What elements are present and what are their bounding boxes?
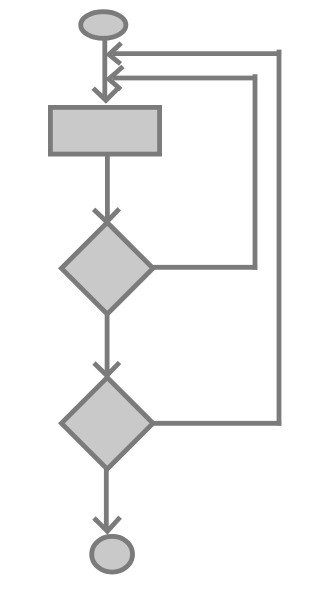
arrowhead into process [93, 88, 118, 101]
wire inner loop left [113, 76, 257, 81]
arrowhead inner loop into main wire [109, 67, 123, 90]
arrowhead into end [94, 517, 120, 531]
start terminator ellipse [81, 12, 126, 39]
arrowhead outer loop into main wire [109, 43, 121, 64]
decision 1 diamond [61, 223, 153, 315]
decision 2 diamond [61, 378, 153, 470]
end terminator circle [92, 536, 133, 572]
wire decision 2 to end [104, 469, 109, 530]
wire start to process [102, 40, 107, 100]
wire process to decision 1 [105, 156, 110, 219]
wire inner loop up [253, 74, 258, 270]
wire outer loop up [277, 50, 282, 426]
arrowhead into decision 1 [94, 209, 120, 222]
process rectangle [50, 107, 159, 154]
wire outer loop left [113, 51, 281, 56]
wire decision 2 branch right [150, 421, 281, 426]
wire decision 1 to decision 2 [105, 314, 110, 373]
wire decision 1 branch right [150, 265, 257, 270]
arrowhead into decision 2 [94, 363, 120, 376]
